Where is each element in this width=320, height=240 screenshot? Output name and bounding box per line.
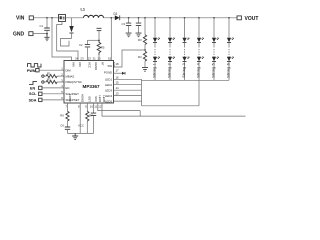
LED string 2 [168, 17, 175, 80]
resistor R2 [42, 77, 64, 83]
svg-text:SDA: SDA [29, 98, 37, 102]
terminal VIN [16, 16, 33, 22]
svg-text:ISET: ISET [88, 96, 92, 103]
ground PGND arrow [122, 72, 125, 75]
LED string 4 [197, 17, 204, 80]
ground R4 [142, 68, 148, 72]
resistor R4 [138, 51, 147, 67]
diode D1 [114, 12, 120, 20]
node C3B tap [138, 17, 140, 19]
svg-text:RT: RT [101, 62, 105, 66]
node C1 tap [46, 17, 48, 19]
svg-text:VCC: VCC [78, 123, 84, 127]
terminal SCL [29, 92, 42, 96]
terminal VOUT [237, 16, 258, 22]
diode D2 [69, 18, 73, 39]
pin labels right [104, 64, 113, 103]
svg-text:LED6: LED6 [98, 95, 102, 102]
en step glyph [29, 81, 37, 84]
ground C3B [136, 33, 142, 37]
svg-text:AGND: AGND [81, 94, 85, 102]
svg-text:C1: C1 [40, 24, 44, 28]
resistor R7 [86, 103, 94, 133]
svg-text:R4: R4 [138, 55, 142, 59]
svg-text:LED3: LED3 [105, 88, 112, 92]
svg-text:LED2: LED2 [105, 83, 112, 87]
node divider tap [144, 17, 146, 19]
svg-text:PWM: PWM [27, 69, 36, 73]
svg-text:MBIAS: MBIAS [66, 74, 75, 78]
svg-text:16: 16 [116, 75, 120, 79]
wire pin8 AGND [79, 103, 81, 133]
svg-text:17: 17 [116, 69, 120, 73]
svg-text:EN: EN [66, 86, 70, 90]
svg-text:SW: SW [107, 64, 112, 68]
svg-text:24: 24 [75, 57, 79, 61]
pin numbers top [75, 57, 111, 61]
wire bottom long [140, 111, 245, 117]
svg-text:String 1: String 1 [153, 63, 157, 78]
capacitor C3 [122, 18, 132, 33]
svg-text:VIN: VIN [78, 62, 82, 67]
pin numbers right [116, 62, 120, 96]
svg-text:LED5: LED5 [102, 95, 106, 102]
wire OVP [114, 50, 146, 67]
svg-text:C3: C3 [122, 22, 126, 26]
svg-text:String 4: String 4 [197, 63, 201, 78]
op IC U1 MP3367 body [64, 61, 114, 104]
resistor R3 [138, 18, 147, 50]
svg-text:String 3: String 3 [182, 63, 186, 78]
wire D2 route [61, 39, 72, 47]
svg-text:21: 21 [93, 57, 97, 61]
wire LED2 [114, 84, 142, 86]
svg-text:13: 13 [116, 92, 120, 96]
resistor R6 [60, 103, 69, 127]
capacitor C2 [79, 40, 90, 60]
terminal SDA [29, 98, 42, 102]
wire SW to pin19 [110, 18, 112, 61]
capacitor C1 [40, 18, 50, 34]
node VCC rail top [88, 39, 100, 41]
pin labels left [66, 68, 82, 102]
svg-text:19: 19 [108, 57, 112, 61]
svg-text:String 2: String 2 [168, 63, 172, 78]
svg-text:23: 23 [80, 57, 84, 61]
ground main [72, 133, 78, 139]
svg-text:VOUT: VOUT [245, 16, 259, 22]
node C3 tap [128, 17, 130, 19]
wire bus bottom [142, 105, 200, 107]
wire LED5 [114, 100, 142, 102]
LED string 1 [153, 17, 160, 80]
svg-text:PGND: PGND [104, 71, 112, 75]
ground C3 [126, 33, 132, 37]
wire VIN route [52, 18, 72, 61]
svg-text:L1: L1 [81, 8, 85, 12]
node Z-route tap [51, 17, 53, 19]
svg-text:VCC: VCC [88, 62, 92, 68]
pin numbers left [61, 67, 63, 101]
wire PWM to DIM [39, 69, 64, 71]
svg-text:SCL: SCL [29, 92, 37, 96]
svg-text:VIN: VIN [72, 62, 76, 67]
terminal PWM [27, 69, 39, 73]
wire bus vertical [141, 79, 143, 106]
terminal GND [13, 31, 33, 37]
svg-text:11: 11 [94, 104, 97, 108]
svg-text:AGND: AGND [94, 62, 98, 70]
svg-text:15: 15 [116, 81, 120, 85]
svg-text:GND: GND [13, 31, 25, 37]
svg-text:MP3367: MP3367 [83, 84, 101, 89]
resistor R5 [97, 40, 105, 60]
svg-text:COMP: COMP [68, 94, 72, 103]
pwm waveform glyph [28, 64, 42, 67]
wire strings rail [142, 79, 230, 81]
node OVP tap [144, 49, 146, 51]
svg-text:14: 14 [116, 86, 120, 90]
capacitor C6 (floating top) [97, 28, 102, 40]
LED string 5 [212, 17, 219, 80]
wire top rail [33, 17, 237, 19]
svg-text:D1: D1 [114, 12, 118, 16]
wire LED6 pin11 [98, 103, 140, 111]
wire GND [33, 33, 47, 35]
svg-text:R3: R3 [138, 38, 142, 42]
svg-text:12: 12 [98, 104, 102, 108]
svg-text:10: 10 [90, 104, 94, 108]
svg-text:DIM: DIM [66, 68, 72, 72]
resistor R1 [42, 71, 64, 77]
wire Q1 gate route [57, 22, 78, 61]
svg-text:VCC: VCC [94, 96, 98, 102]
pin labels top (vertical) [72, 62, 117, 70]
node SW [110, 17, 112, 19]
pin labels bottom (vertical) [68, 94, 106, 103]
svg-text:C6: C6 [60, 123, 64, 127]
svg-text:FREQ/SYNC: FREQ/SYNC [66, 80, 82, 84]
terminal EN [30, 86, 42, 90]
svg-text:22: 22 [88, 57, 92, 61]
wire LED5 pin12 [102, 103, 140, 116]
wire string4 drop [198, 80, 200, 106]
wire ground bus [68, 132, 94, 134]
svg-text:LED1: LED1 [105, 78, 112, 82]
svg-text:EN: EN [30, 86, 35, 90]
svg-text:String 6: String 6 [227, 63, 231, 78]
svg-text:C2: C2 [79, 43, 83, 47]
wire LED3 [114, 89, 142, 91]
LED string 6 [227, 17, 234, 80]
capacitor C6 [60, 123, 70, 133]
svg-text:R6: R6 [60, 114, 64, 118]
inductor L1 [81, 8, 104, 18]
switch Q1 [59, 15, 66, 22]
pin numbers bottom [65, 104, 101, 108]
ground (input) [44, 34, 49, 41]
capacitor C3B [136, 18, 141, 33]
wire PGND pin17 [114, 72, 123, 74]
capacitor C5 [91, 103, 96, 133]
wire LED4 [114, 95, 142, 97]
wire LED1 [114, 78, 142, 80]
svg-text:SW: SW [112, 62, 116, 67]
svg-text:VIN: VIN [16, 16, 25, 22]
LED string 3 [182, 17, 189, 80]
svg-text:String 5: String 5 [212, 63, 216, 78]
